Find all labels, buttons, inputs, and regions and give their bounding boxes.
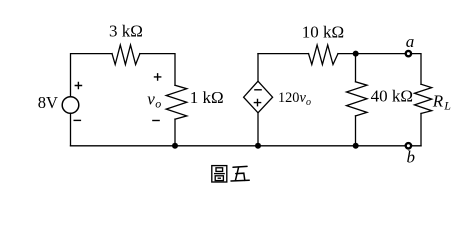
svg-text:a: a xyxy=(406,32,415,51)
wire 40k top lead xyxy=(355,54,357,82)
wire R2 bottom lead xyxy=(174,119,176,146)
wire dependent source top lead xyxy=(257,54,259,82)
svg-text:o: o xyxy=(306,97,311,108)
svg-text:1 kΩ: 1 kΩ xyxy=(190,88,224,107)
wire top rail to node vo branch xyxy=(140,54,175,86)
svg-text:b: b xyxy=(407,148,416,167)
terminal b open circle xyxy=(406,143,411,148)
svg-text:L: L xyxy=(443,99,451,113)
wire terminal a to RL xyxy=(412,54,421,85)
polarity plus inside U1 xyxy=(254,99,262,107)
wire 40k bottom lead xyxy=(355,116,357,146)
wire top-left rail xyxy=(71,54,113,97)
junction dot node vo bottom xyxy=(172,143,178,149)
svg-text:40 kΩ: 40 kΩ xyxy=(371,87,413,106)
wire bottom rail xyxy=(71,145,422,147)
junction dot top node at 40k xyxy=(353,51,359,57)
caption figure five char wu strokes xyxy=(231,166,249,181)
polarity minus of V1 xyxy=(74,119,82,121)
voltage source V1 circle xyxy=(62,97,79,114)
svg-text:120: 120 xyxy=(278,90,299,106)
svg-text:10 kΩ: 10 kΩ xyxy=(302,23,344,42)
polarity minus inside U1 xyxy=(254,89,262,91)
svg-text:v: v xyxy=(147,90,155,109)
resistor RL zigzag xyxy=(415,84,432,113)
resistor R3 10k zigzag xyxy=(309,45,339,65)
resistor R2 1k zigzag xyxy=(166,85,187,119)
wire top rail middle xyxy=(258,53,309,55)
polarity plus of vo xyxy=(154,73,162,81)
svg-text:8V: 8V xyxy=(38,93,58,112)
svg-text:R: R xyxy=(432,91,444,110)
polarity minus of vo xyxy=(152,120,160,122)
resistor R4 40k zigzag xyxy=(347,82,368,116)
resistor R1 3k zigzag xyxy=(112,45,140,65)
dependent source U1 diamond xyxy=(244,81,273,113)
svg-text:3 kΩ: 3 kΩ xyxy=(109,22,143,41)
wire top rail to terminal a xyxy=(338,53,405,55)
wire source bottom lead xyxy=(70,113,72,145)
svg-text:o: o xyxy=(155,96,161,110)
junction dot bottom node at 40k xyxy=(353,143,359,149)
polarity plus of V1 xyxy=(75,82,83,90)
wire RL bottom lead xyxy=(420,114,422,146)
terminal a open circle xyxy=(406,51,411,56)
caption figure five char tu outer box xyxy=(212,166,227,182)
junction dot dependent source bottom xyxy=(255,143,261,149)
wire dependent source bottom lead xyxy=(257,113,259,146)
